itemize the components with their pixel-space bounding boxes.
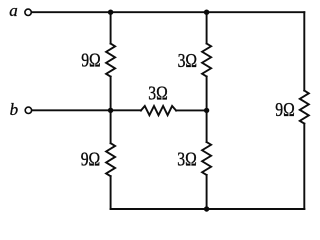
resistor R2 3ohm top-middle — [202, 44, 211, 77]
svg-text:9Ω: 9Ω — [81, 49, 100, 71]
svg-text:9Ω: 9Ω — [81, 148, 100, 170]
wire b to left node — [33, 109, 141, 111]
resistor R5 9ohm right — [300, 91, 309, 124]
svg-text:9Ω: 9Ω — [275, 98, 294, 120]
wire left column bottom — [110, 176, 112, 209]
wire middle column below node — [206, 110, 208, 142]
node bottom-middle junction dot — [204, 206, 209, 211]
node top-left junction dot — [108, 10, 113, 15]
wire resistor to middle node — [176, 109, 207, 111]
svg-text:3Ω: 3Ω — [148, 82, 167, 104]
wire middle column top — [206, 12, 208, 43]
wire middle column bottom — [206, 175, 208, 209]
wire right rail lower — [303, 124, 305, 209]
svg-text:a: a — [9, 1, 18, 20]
wire left column top — [110, 12, 112, 43]
resistor R3 3ohm horizontal — [141, 106, 176, 115]
resistor R4 9ohm bottom-left — [106, 143, 115, 176]
svg-text:3Ω: 3Ω — [177, 148, 196, 170]
wire left column below node — [110, 110, 112, 143]
node b-row left junction dot — [108, 108, 113, 113]
terminal a open circle — [25, 9, 31, 15]
svg-text:3Ω: 3Ω — [178, 49, 197, 71]
wire bottom rail — [111, 208, 305, 210]
terminal b open circle — [25, 107, 31, 113]
wire left column middle — [110, 77, 112, 111]
wire top rail a to top-right corner — [32, 11, 304, 13]
resistor R1 9ohm top-left — [106, 44, 115, 77]
node top-middle junction dot — [204, 10, 209, 15]
resistor R6 3ohm bottom-middle — [202, 142, 211, 175]
svg-text:b: b — [10, 100, 19, 119]
wire middle column centre — [206, 77, 208, 111]
wire right rail upper — [303, 12, 305, 90]
node b-row middle junction dot — [204, 108, 209, 113]
